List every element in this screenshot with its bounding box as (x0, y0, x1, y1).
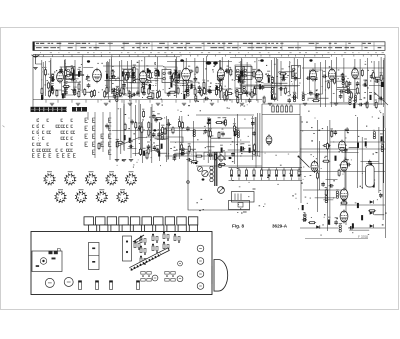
component PWR35 (368, 160, 372, 165)
component RF9 (59, 70, 64, 74)
tube V10 (311, 160, 318, 173)
component OUT31 (322, 75, 327, 79)
component MIX5 (111, 88, 116, 92)
component IF8 (175, 70, 177, 75)
component AFL14 (182, 121, 184, 129)
bias resistor row R19 (201, 89, 203, 97)
bias resistor row R9 (112, 90, 116, 95)
component PWR15 (322, 160, 330, 162)
component AVC8 (138, 125, 142, 130)
component AFL9 (166, 123, 171, 127)
component RF23 (86, 75, 90, 80)
component RF17 (45, 68, 47, 76)
ground symbol gm3 (129, 160, 133, 162)
component RF3 (78, 70, 82, 75)
component AFM1 (147, 147, 149, 155)
component DET5 (258, 71, 260, 79)
dial cord markings above bus (40, 51, 384, 54)
IF transformer box L4 (162, 70, 171, 83)
bias resistor row R3 (56, 89, 58, 97)
tube V1 (57, 71, 64, 84)
IF transformer box L8 (292, 66, 301, 79)
component OUT18 (382, 82, 384, 87)
component DET19 (287, 98, 291, 103)
component DET1 (240, 71, 242, 76)
component DET8 (271, 87, 273, 94)
wire mesh jumpers AFL (174, 149, 196, 155)
component OUT25 (302, 94, 304, 101)
chassis inner left box (32, 251, 62, 272)
bias resistor row R5 (73, 89, 77, 94)
bias resistor row R17 (185, 88, 189, 93)
ground symbol gm1 (115, 160, 119, 162)
component PWR32 (339, 225, 341, 232)
component PWR31 (344, 148, 348, 153)
output network box 2 (229, 201, 250, 210)
wire stage rail IF (167, 61, 232, 63)
bias resistor row R23 (236, 90, 238, 98)
component DET15 (243, 86, 245, 93)
component IF15 (186, 77, 188, 85)
component IF27 (220, 84, 222, 92)
component RF22 (78, 90, 80, 98)
component IF23 (170, 82, 172, 87)
wire mesh verticals AFL (167, 116, 194, 164)
ground symbol g7 (210, 103, 214, 105)
shield box SB4 (235, 65, 251, 93)
component AFL6 (180, 152, 185, 156)
coil can lid 3 (155, 69, 159, 72)
chassis bottom socket circles (45, 278, 73, 288)
component IF11 (217, 73, 219, 81)
component PWR4 (317, 172, 319, 180)
wire mesh jumpers RF (54, 68, 93, 93)
component PWR6 (370, 163, 372, 168)
component IF28 (230, 68, 232, 76)
component OUT9 (350, 91, 352, 99)
component OUT7 (375, 101, 377, 109)
IF transformer box L2 (124, 70, 133, 83)
band switch dark bar (31, 107, 68, 112)
component MIX26 (111, 75, 116, 79)
component MIX13 (127, 71, 129, 79)
wire AF output loop (188, 150, 250, 210)
component MIX35 (113, 94, 117, 99)
component DET12 (241, 80, 246, 84)
component PWR13 (361, 215, 363, 220)
wire AF section rails (165, 115, 262, 166)
component OUT37 (362, 83, 367, 87)
component OUT33 (339, 90, 344, 94)
component MIX12 (133, 66, 135, 74)
component OUT30 (356, 81, 360, 86)
component PWR34 (326, 142, 328, 150)
component OUT20 (358, 103, 363, 107)
component IF36 (198, 85, 202, 90)
component PWR30 (323, 145, 331, 147)
speaker circle with arrow (218, 187, 225, 194)
bias resistor row R21 (216, 88, 218, 96)
tube V3 (139, 70, 147, 84)
ground symbol g3 (104, 103, 108, 105)
component OUT11 (370, 74, 374, 79)
component RF26 (91, 90, 93, 98)
ground symbol gm2 (122, 160, 126, 162)
component IF35 (216, 86, 218, 91)
tube V13 rectifier (340, 210, 348, 224)
component PWR23 (346, 163, 351, 167)
component AFL10 (190, 161, 198, 163)
component DET14 (267, 74, 271, 79)
component RF14 (78, 72, 80, 77)
component OUT6 (366, 101, 368, 109)
component AFL3 (188, 145, 190, 153)
bias resistor row R12 (136, 90, 140, 95)
component IF17 (186, 85, 188, 92)
tube V4 (182, 67, 191, 82)
component AVC9 (129, 138, 131, 143)
component IF34 (203, 81, 205, 89)
component PWR3 (345, 127, 349, 132)
component IF20 (224, 93, 226, 101)
component OUT22 (341, 76, 345, 81)
electrolytic at AF feed (208, 130, 210, 138)
component DET32 (238, 76, 240, 83)
component PWR12 (325, 196, 327, 203)
component MIX4 (128, 95, 133, 99)
component PWR27 (373, 182, 375, 187)
component AF8 (240, 147, 245, 151)
component OUT35 (339, 94, 343, 99)
component PWR17 (373, 132, 375, 139)
wire right section frame (262, 55, 386, 238)
component IF4 (221, 73, 223, 81)
component RF16 (70, 78, 75, 82)
wire mesh verticals MIX (107, 57, 158, 99)
wire AVC verticals (117, 100, 152, 160)
chassis bottom electrolytics (78, 280, 140, 289)
component DET7 (279, 73, 287, 75)
ground symbol g1 (50, 103, 54, 105)
component MIX30 (150, 71, 152, 79)
switch area part 1 (98, 142, 100, 150)
component MIX10 (155, 69, 157, 77)
component OUT16 (349, 98, 351, 105)
component PWR10 (368, 210, 376, 212)
tiny annotation specks right section (298, 111, 387, 236)
component IF22 (208, 89, 212, 94)
electrolytic can (366, 165, 375, 187)
component MIX24 (158, 71, 160, 76)
component OUT40 (312, 100, 320, 102)
parts table text row 2 (36, 47, 381, 48)
ground symbol g6 (182, 103, 186, 105)
component MIX33 (152, 92, 154, 100)
component RF4 (62, 86, 70, 88)
component OUT28 (378, 97, 383, 101)
component MIX3 (122, 83, 126, 88)
component AF14 (209, 130, 211, 138)
tube socket underside view S9 (117, 191, 129, 203)
component DET35 (251, 91, 253, 99)
component PWR24 (352, 223, 354, 228)
bias resistor row R13 (148, 87, 150, 95)
svg-text:3629-A: 3629-A (272, 224, 288, 229)
component IF10 (198, 89, 202, 94)
component RF24 (62, 93, 64, 98)
connector dot above ladder (252, 151, 256, 155)
component AFM12 (162, 126, 164, 134)
component OUT2 (314, 76, 318, 81)
component AF21 (208, 153, 213, 157)
wire right rails (298, 131, 386, 229)
dial drive short diagonal with arrows (133, 235, 144, 243)
component DET6 (292, 70, 294, 78)
component MIX27 (106, 86, 108, 94)
component AFM6 (152, 132, 156, 137)
padder trimmer row (272, 104, 292, 112)
power ladder hanging parts (230, 168, 300, 181)
component IF31 (203, 87, 205, 95)
shield box SB5 (310, 70, 323, 94)
component DET30 (236, 92, 244, 94)
component MIX28 (106, 74, 108, 79)
component AVC13 (154, 117, 158, 122)
tube V8 (328, 68, 335, 82)
component AF15 (231, 152, 235, 157)
component RF6 (41, 95, 43, 100)
component RF12 (78, 83, 80, 91)
tube V5 (217, 67, 224, 80)
wire padder rail (262, 86, 300, 115)
wire mesh verticals DET (241, 58, 298, 102)
wire stage rail OUT (302, 67, 384, 69)
tube V9 EBL output (339, 140, 346, 153)
component RF20 (65, 69, 67, 77)
band switch dark bar segment 2 (72, 107, 87, 112)
component PWR5 (365, 141, 367, 146)
parts table column lines (60, 42, 374, 51)
bias resistor row R16 (177, 87, 179, 95)
component AVC11 (128, 145, 133, 149)
bias resistor row R4 (64, 90, 68, 95)
component RF19 (74, 88, 76, 96)
component DET9 (278, 87, 283, 91)
tube V7 (310, 69, 317, 82)
IF transformer box L5 (174, 73, 183, 86)
component AF13 (221, 121, 226, 125)
component AF2 (221, 148, 223, 153)
oscillator coil can lid 2 (213, 62, 218, 65)
wire mesh verticals PWR (301, 113, 384, 231)
component PWR22 (381, 136, 383, 141)
tube socket underside view S7 (75, 191, 87, 203)
wire right bottom rail (305, 238, 368, 240)
component DET31 (284, 87, 286, 95)
component MIX18 (149, 85, 151, 90)
bias resistor row R20 (207, 88, 211, 93)
tiny annotation specks upper band (41, 60, 376, 102)
component AVC1 (116, 141, 124, 143)
component OUT27 (342, 78, 344, 85)
tube V11 (341, 160, 348, 173)
component RF10 (72, 73, 74, 78)
coil can lid 4 (147, 70, 151, 73)
top blob near V4 (180, 59, 183, 62)
component RF5 (48, 82, 50, 90)
component AFL5 (182, 148, 184, 155)
component RF25 (59, 68, 63, 73)
component OUT23 (306, 76, 311, 80)
component AF10 (204, 129, 208, 134)
bridge diamond (218, 155, 225, 162)
IF transformer box L3 (147, 73, 156, 86)
wire mesh jumpers OUT (308, 71, 385, 103)
component DET27 (271, 76, 273, 84)
component OUT15 (344, 91, 352, 93)
trimmer strip bottom row (89, 225, 198, 232)
component AF11 (240, 146, 242, 151)
svg-text:Fig. 8: Fig. 8 (232, 224, 244, 229)
wire long diagonal to AF (118, 138, 147, 147)
tube V6 (255, 69, 263, 83)
component AF22 (218, 131, 220, 139)
component DET26 (261, 85, 265, 90)
component OUT1 (361, 69, 363, 77)
antenna (32, 54, 40, 64)
winding bump right (218, 164, 221, 167)
component RF15 (87, 83, 91, 88)
component OUT12 (346, 80, 348, 88)
component OUT10 (353, 103, 355, 108)
tube V8b detector diode (266, 134, 272, 145)
component MIX9 (116, 88, 118, 95)
component DET34 (294, 76, 298, 81)
chassis tall box (123, 236, 132, 261)
component IF6 (168, 91, 176, 93)
component AFM9 (161, 132, 163, 139)
component OUT24 (380, 74, 382, 82)
mains switch diagonal (299, 157, 310, 168)
component AFM4 (164, 127, 166, 135)
bias resistor row R24 (245, 90, 249, 95)
wire top supply bus (33, 54, 385, 56)
component DET28 (281, 78, 286, 82)
component MIX8 (132, 71, 134, 76)
component AFM7 (146, 152, 148, 160)
IF transformer box L6 (236, 67, 245, 80)
switch wafer contact grid C large (85, 118, 111, 154)
component IF30 (226, 68, 230, 73)
component IF19 (225, 70, 233, 72)
component AFL7 (186, 158, 191, 162)
component AF24 (249, 148, 251, 153)
component OUT39 (341, 73, 345, 78)
component MIX19 (142, 91, 146, 96)
component AFM11 (158, 151, 160, 156)
component IF24 (215, 88, 223, 90)
diode D2 (370, 211, 374, 214)
wire second bus segment A (33, 56, 180, 58)
component PWR40 (335, 156, 337, 161)
component IF12 (183, 94, 185, 99)
wire power ladder rail upper (186, 151, 298, 153)
wire mesh jumpers AF (204, 138, 260, 152)
output transformer core bars (215, 152, 217, 186)
wire ladder rail 2 (229, 179, 303, 181)
tube socket underside view S1 (44, 173, 56, 185)
chassis outline (31, 232, 212, 295)
component MIX21 (111, 69, 113, 77)
wire mesh jumpers PWR (315, 148, 385, 230)
wire second bus segment B (230, 57, 330, 59)
component IF18 (195, 95, 197, 103)
chassis bottom contact pairs (141, 272, 175, 282)
tiny annotation specks ladder area (191, 153, 296, 214)
wire AF feed horizontal (112, 131, 209, 144)
component RF13 (71, 67, 73, 75)
component PWR11 (340, 202, 348, 204)
component MIX20 (142, 82, 144, 89)
component MIX16 (125, 74, 127, 82)
wire right diag to chassis (374, 92, 388, 105)
output network box 2 inner part (238, 203, 243, 208)
IF transformer box L1 (66, 67, 75, 80)
chassis left box parts (36, 249, 61, 267)
component MIX29 (122, 71, 124, 76)
component DET20 (237, 96, 239, 104)
top blob near bus x310 (309, 59, 312, 61)
component IF9 (226, 93, 228, 101)
component IF29 (167, 71, 172, 75)
component PWR39 (328, 220, 330, 225)
component IF33 (178, 73, 180, 78)
bias resistor row R25 (254, 87, 256, 95)
component AFL8 (186, 126, 190, 131)
component RF18 (69, 71, 73, 76)
component OUT13 (348, 81, 352, 86)
output network box 1 (232, 192, 255, 203)
component AVC3 (124, 135, 126, 140)
shield box SB1 (62, 67, 74, 95)
component RF21 (64, 86, 68, 91)
component OUT34 (334, 77, 336, 85)
component AFM2 (147, 144, 151, 149)
bias resistor row R11 (128, 90, 132, 95)
component OUT17 (347, 87, 349, 94)
socket row labels (47, 171, 134, 190)
component AVC15 (143, 110, 145, 118)
wire ladder rail 1 (229, 167, 303, 169)
component DET16 (271, 95, 273, 100)
label 4011 (243, 212, 247, 213)
component PWR33 (338, 169, 340, 177)
component DET33 (241, 70, 243, 77)
wire mesh jumpers AVC (127, 130, 159, 154)
connector circle AF loop (187, 181, 190, 184)
component PWR9 (349, 226, 354, 230)
component AFL12 (173, 156, 177, 161)
component OUT4 (356, 87, 358, 95)
shield box SB2 (124, 69, 138, 95)
switch grid bottom row E glyphs (33, 154, 76, 158)
ground symbol g11 (334, 103, 338, 105)
component AVC16 (153, 145, 157, 150)
component AF20 (233, 125, 235, 133)
dark blob detector 3 (195, 162, 198, 164)
chassis mid circles (152, 261, 183, 282)
component PWR2 (381, 145, 383, 152)
